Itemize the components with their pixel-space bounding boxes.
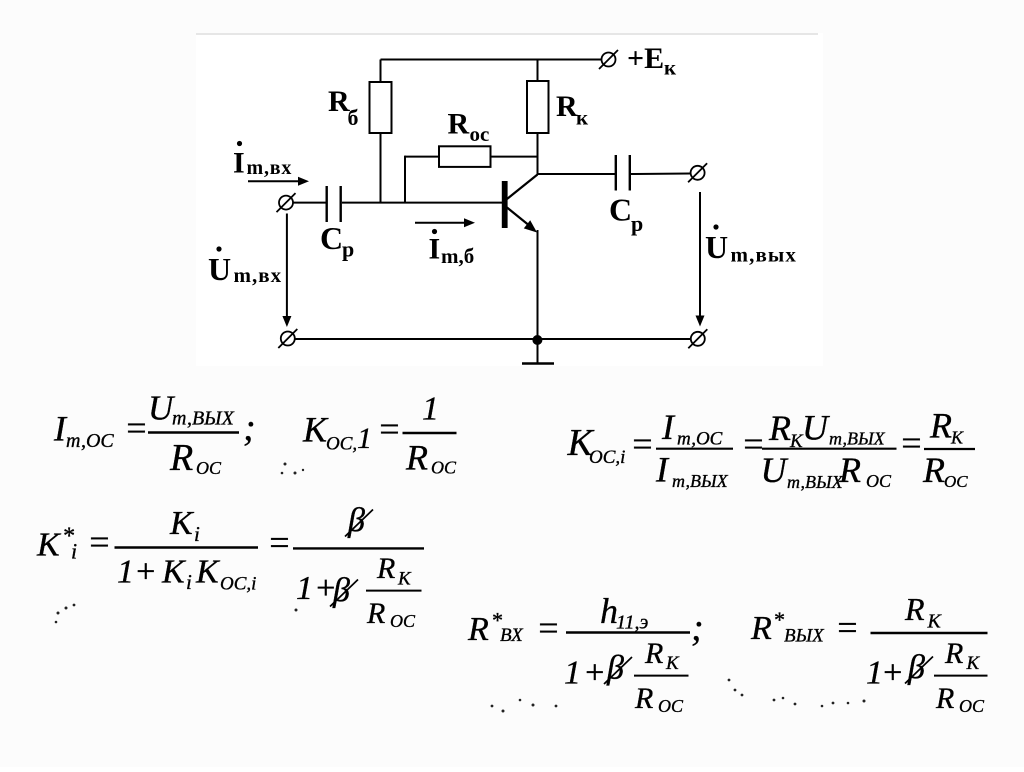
svg-text:1: 1 [296,570,313,607]
terminal +Ek [599,50,618,69]
wire: output Cp to output terminal [631,173,691,176]
svg-text:+: + [583,655,606,692]
svg-text:ОС: ОС [196,458,222,478]
wire: collector to output Cp [538,173,617,175]
wire: top supply rail [381,59,602,61]
label Rb [328,85,359,130]
svg-text:т,ВЫХ: т,ВЫХ [829,429,886,449]
formula 3: K_oc,i = I_m,oc/I_m,vyh = Rk U_m,vyh/(U_m,vyh R_oc) = Rk/R_oc [567,406,976,493]
arrow: input current direction [248,177,309,186]
svg-text:К: К [927,611,943,633]
svg-text:R: R [922,450,945,490]
svg-text:m,вх: m,вх [234,263,283,287]
svg-text:U: U [761,450,789,490]
wire: emitter down to ground node [537,230,539,363]
svg-text:К: К [665,653,680,674]
terminal output top [688,163,707,182]
svg-text:ВХ: ВХ [500,625,524,646]
svg-text:=: = [124,408,148,448]
svg-text:K: K [161,554,187,591]
svg-text:i: i [186,570,192,594]
svg-text:R: R [904,591,925,627]
svg-text:U: U [208,251,231,287]
svg-text:к: к [576,106,589,130]
arrow: base current direction [415,218,475,227]
svg-text:р: р [342,237,354,262]
svg-text:=: = [377,409,401,449]
svg-text:+: + [134,554,157,591]
svg-text:I: I [429,233,441,266]
svg-text:К: К [950,428,964,448]
label Roc [448,108,490,147]
svg-text:i: i [71,539,77,564]
svg-text:R: R [838,450,861,490]
svg-text:K: K [36,527,62,564]
svg-text:R: R [750,610,772,647]
svg-text:ОС: ОС [390,611,416,631]
svg-text:=: = [835,608,859,648]
svg-text:к: к [664,56,677,80]
transistor VT (NPN) [502,175,538,233]
formula 2: K_oc,1 = 1 / R_oc [302,391,457,478]
wire: Cp to transistor base [342,202,502,204]
svg-text:т,ВЫХ: т,ВЫХ [787,472,844,492]
svg-text:R: R [935,682,954,715]
svg-text:U: U [802,408,830,448]
svg-text:R: R [405,438,428,478]
svg-text:m,вх: m,вх [247,157,293,179]
svg-text:+E: +E [627,42,664,75]
arrow: output voltage (down) [696,192,705,327]
svg-text:т,ВЫХ: т,ВЫХ [172,408,235,430]
svg-text:R: R [467,611,489,648]
svg-text:=: = [630,424,654,464]
svg-text:1: 1 [357,422,372,455]
svg-text:ОС: ОС [944,472,968,491]
terminal input bottom [278,329,297,348]
capacitor Cp (input) [327,186,341,222]
svg-text:m,вых: m,вых [731,243,797,267]
svg-text:ОС: ОС [431,458,457,478]
label i m,b base current [429,229,475,268]
scan noise specks [55,463,866,713]
svg-text:1: 1 [564,655,581,692]
terminal input top [277,193,296,212]
svg-text:р: р [631,211,643,236]
svg-text:ОС: ОС [658,696,684,716]
schematic scan area background [196,33,823,366]
svg-text:R: R [929,406,952,446]
svg-text:ос: ос [470,122,490,146]
svg-text:=: = [87,522,111,562]
svg-text:*: * [773,607,784,632]
wire: Roc right to collector column [491,156,538,158]
svg-text:R: R [644,637,663,670]
svg-text:I: I [661,407,676,447]
svg-text:R: R [944,637,963,670]
svg-text:;: ; [691,607,704,649]
svg-text:ОС,: ОС, [326,434,357,455]
formula 6: R*_vyx = Rk/(1+b Rk/Roc) [750,591,988,716]
svg-text:ОС: ОС [866,471,892,491]
svg-text:т,ОС: т,ОС [66,430,114,452]
formula 4: K*_i = K_i/(1+K_i K_oc,i) = b/(1+b Rk/Roc) [36,502,424,631]
svg-text:т,ВЫХ: т,ВЫХ [672,471,729,491]
svg-text:K: K [302,410,329,450]
svg-text:R: R [768,408,791,448]
svg-text:R: R [634,682,653,715]
label Cp (output) [609,192,643,237]
svg-text:K: K [169,505,195,542]
svg-text:C: C [609,192,632,228]
svg-text:I: I [655,450,670,490]
svg-text:ОС,i: ОС,i [220,574,256,595]
svg-text:11,э: 11,э [616,612,649,634]
svg-text:ОС: ОС [959,696,985,716]
svg-text:ВЫХ: ВЫХ [784,626,825,647]
svg-text:K: K [195,554,221,591]
svg-text:б: б [348,105,359,130]
wire: Rk bottom to collector node [537,133,539,175]
svg-text:=: = [536,608,560,648]
svg-text:;: ; [243,407,256,449]
arrow: input voltage (down) [282,214,291,328]
svg-text:1: 1 [117,554,134,591]
wire: input terminal to Cp [294,202,327,204]
label U m,vyx output voltage [705,224,797,266]
wire: top rail to Rk [537,60,539,83]
resistor Rb [370,82,392,133]
svg-text:1: 1 [422,391,439,428]
svg-text:R: R [376,552,395,585]
capacitor Cp (output) [616,155,630,191]
svg-text:R: R [448,108,470,141]
label i m,vx input current [233,141,292,180]
wire: Roc left jog down to base wire [405,156,439,158]
terminal output bottom [688,329,707,348]
svg-text:i: i [194,522,200,546]
svg-text:К: К [397,569,412,590]
label Cp (input) [320,220,354,262]
label U m,vx input voltage [208,246,282,287]
ground symbol [522,362,554,365]
svg-text:ОС,i: ОС,i [589,447,625,468]
formula 1: I_m,oc = U_m,vyh / R_oc ; [53,389,256,480]
svg-text:т,ОС: т,ОС [677,429,723,450]
svg-text:=: = [267,523,291,563]
svg-text:C: C [320,220,343,256]
label Rk [556,90,589,130]
svg-text:К: К [966,653,981,674]
wire: top rail to Rb [380,60,382,84]
node: emitter/ground junction dot [532,335,542,345]
svg-text:R: R [169,437,193,479]
svg-text:m,б: m,б [441,244,474,268]
svg-text:U: U [705,229,728,265]
wire: bottom common rail [296,338,691,340]
label +Ek [627,42,677,80]
svg-text:=: = [899,423,923,463]
svg-text:+: + [881,655,904,692]
svg-text:R: R [556,90,578,123]
resistor Rk [527,81,549,133]
resistor Roc [439,146,491,167]
svg-text:R: R [366,597,385,630]
svg-text:I: I [233,147,245,180]
wire: Rb bottom to base node [380,133,382,204]
formula 5: R*_vx = h11,e/(1+b Rk/Roc) ; [467,591,704,716]
